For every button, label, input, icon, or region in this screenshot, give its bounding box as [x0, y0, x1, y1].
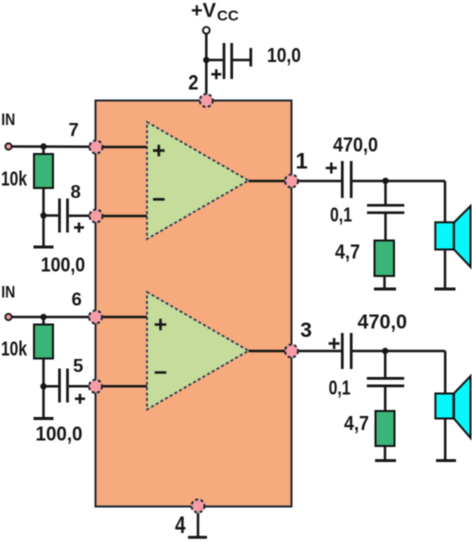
wire C1 to ground bar: [233, 59, 251, 62]
speaker LS1: [435, 206, 470, 267]
+Vcc label: [191, 0, 239, 25]
junction input node 2: [40, 314, 46, 320]
wire junction to R1: [42, 147, 45, 156]
resistor R1 10k: [34, 154, 53, 188]
resistor R2 4,7: [375, 241, 395, 277]
wire node to C7: [384, 351, 387, 377]
speaker LS2: [435, 376, 470, 438]
svg-text:4,7: 4,7: [335, 241, 360, 263]
capacitor C3 470,0: [326, 161, 351, 198]
ground (channel 2 input): [34, 417, 54, 420]
wire node to ground: [42, 216, 45, 248]
svg-text:3: 3: [300, 319, 312, 342]
capacitor C4 0,1: [367, 205, 404, 212]
junction output node 1: [382, 178, 388, 184]
ground (speaker 1): [435, 288, 456, 291]
wire to speaker LS1: [444, 181, 447, 223]
wire C4 to R2: [384, 214, 387, 241]
ground (channel 1 input): [34, 246, 54, 249]
pin 3 pad: [285, 345, 298, 358]
resistor R4 4,7: [376, 411, 395, 446]
IC U1 body: [96, 101, 292, 507]
svg-text:+V: +V: [191, 0, 217, 22]
svg-text:8: 8: [71, 181, 81, 202]
svg-text:10,0: 10,0: [267, 45, 301, 67]
wire junction to C1: [206, 59, 223, 62]
wire IN to pin 6: [12, 316, 95, 319]
wire C6 to speaker branch: [353, 350, 446, 353]
wire pin 4 to ground: [197, 513, 200, 537]
svg-text:6: 6: [72, 289, 82, 310]
wire pin 6 to op-amp +: [103, 316, 147, 319]
wire pin 5 to op-amp minus: [103, 385, 147, 388]
wire pin 3 to C6: [299, 350, 341, 353]
ground (Zobel channel 2): [375, 459, 396, 462]
wire pin 1 to C3: [299, 180, 341, 183]
wire speaker LS1 to ground: [444, 250, 447, 290]
svg-text:100,0: 100,0: [41, 255, 85, 277]
svg-text:IN: IN: [1, 110, 15, 129]
svg-text:IN: IN: [1, 282, 15, 301]
wire pin 8 to op-amp minus: [103, 215, 147, 218]
svg-text:470,0: 470,0: [333, 135, 378, 157]
pin 4 pad: [192, 500, 205, 513]
wire R3 to node: [42, 359, 45, 387]
svg-text:470,0: 470,0: [358, 312, 408, 334]
junction feedback node 2: [40, 383, 46, 389]
wire C5 to pin 5: [69, 385, 95, 388]
wire junction to R3: [42, 317, 45, 325]
wire node to C4: [384, 181, 387, 204]
pin 1 pad: [285, 175, 298, 188]
capacitor C2 100,0: [60, 199, 85, 233]
junction feedback node 1: [40, 212, 46, 218]
svg-text:CC: CC: [217, 8, 239, 25]
ground (speaker 2): [436, 459, 456, 462]
wire IN to pin 7: [12, 145, 95, 148]
wire node to C2: [44, 214, 59, 217]
svg-text:10k: 10k: [1, 339, 28, 361]
capacitor C1 10,0: [211, 43, 231, 79]
svg-text:7: 7: [69, 119, 79, 140]
pin 7 pad: [90, 141, 103, 154]
op-amp U1B: [147, 292, 249, 410]
wire to speaker LS2: [444, 351, 447, 394]
pin 6 pad: [89, 311, 102, 324]
wire C3 to speaker branch: [353, 180, 446, 183]
svg-text:4: 4: [175, 512, 186, 539]
ground (Vcc decoupling): [249, 48, 252, 67]
wire speaker LS2 to ground: [444, 419, 447, 461]
junction Vcc node: [203, 57, 209, 63]
junction input node 1: [40, 143, 46, 149]
wire C2 to pin 8: [69, 215, 95, 218]
capacitor C6 470,0: [329, 333, 352, 369]
svg-text:10k: 10k: [1, 169, 28, 191]
junction output node 2: [382, 348, 388, 354]
wire C7 to R4: [384, 387, 387, 411]
pin 5 pad: [89, 380, 102, 393]
input terminal channel 1: [5, 143, 11, 149]
ground (pin 4): [188, 536, 207, 539]
input terminal channel 2: [5, 314, 11, 320]
svg-text:0,1: 0,1: [330, 205, 352, 227]
capacitor C5 100,0: [60, 369, 86, 404]
svg-text:5: 5: [73, 355, 83, 376]
pin 2 pad: [200, 94, 213, 107]
wire Vcc to pin 2: [205, 34, 208, 100]
svg-text:2: 2: [188, 72, 198, 95]
svg-text:1: 1: [296, 149, 308, 174]
wire R4 to ground: [384, 446, 387, 461]
wire R2 to ground: [383, 276, 386, 289]
wire op-amp U1B output to pin 3: [249, 350, 292, 353]
pin 8 pad: [90, 210, 103, 223]
wire R1 to node: [42, 188, 45, 216]
Vcc terminal: [203, 27, 210, 34]
svg-text:4,7: 4,7: [344, 413, 369, 435]
svg-text:100,0: 100,0: [36, 424, 83, 446]
wire node to C5: [44, 385, 59, 388]
wire node to ground: [42, 386, 45, 418]
resistor R3 10k: [34, 325, 53, 359]
svg-text:0,1: 0,1: [329, 378, 351, 400]
op-amp U1A: [147, 122, 249, 239]
wire pin 7 to op-amp +: [103, 146, 147, 149]
wire op-amp U1A output to pin 1: [249, 180, 292, 183]
capacitor C7 0,1: [367, 378, 404, 386]
ground (Zobel channel 1): [374, 288, 396, 291]
